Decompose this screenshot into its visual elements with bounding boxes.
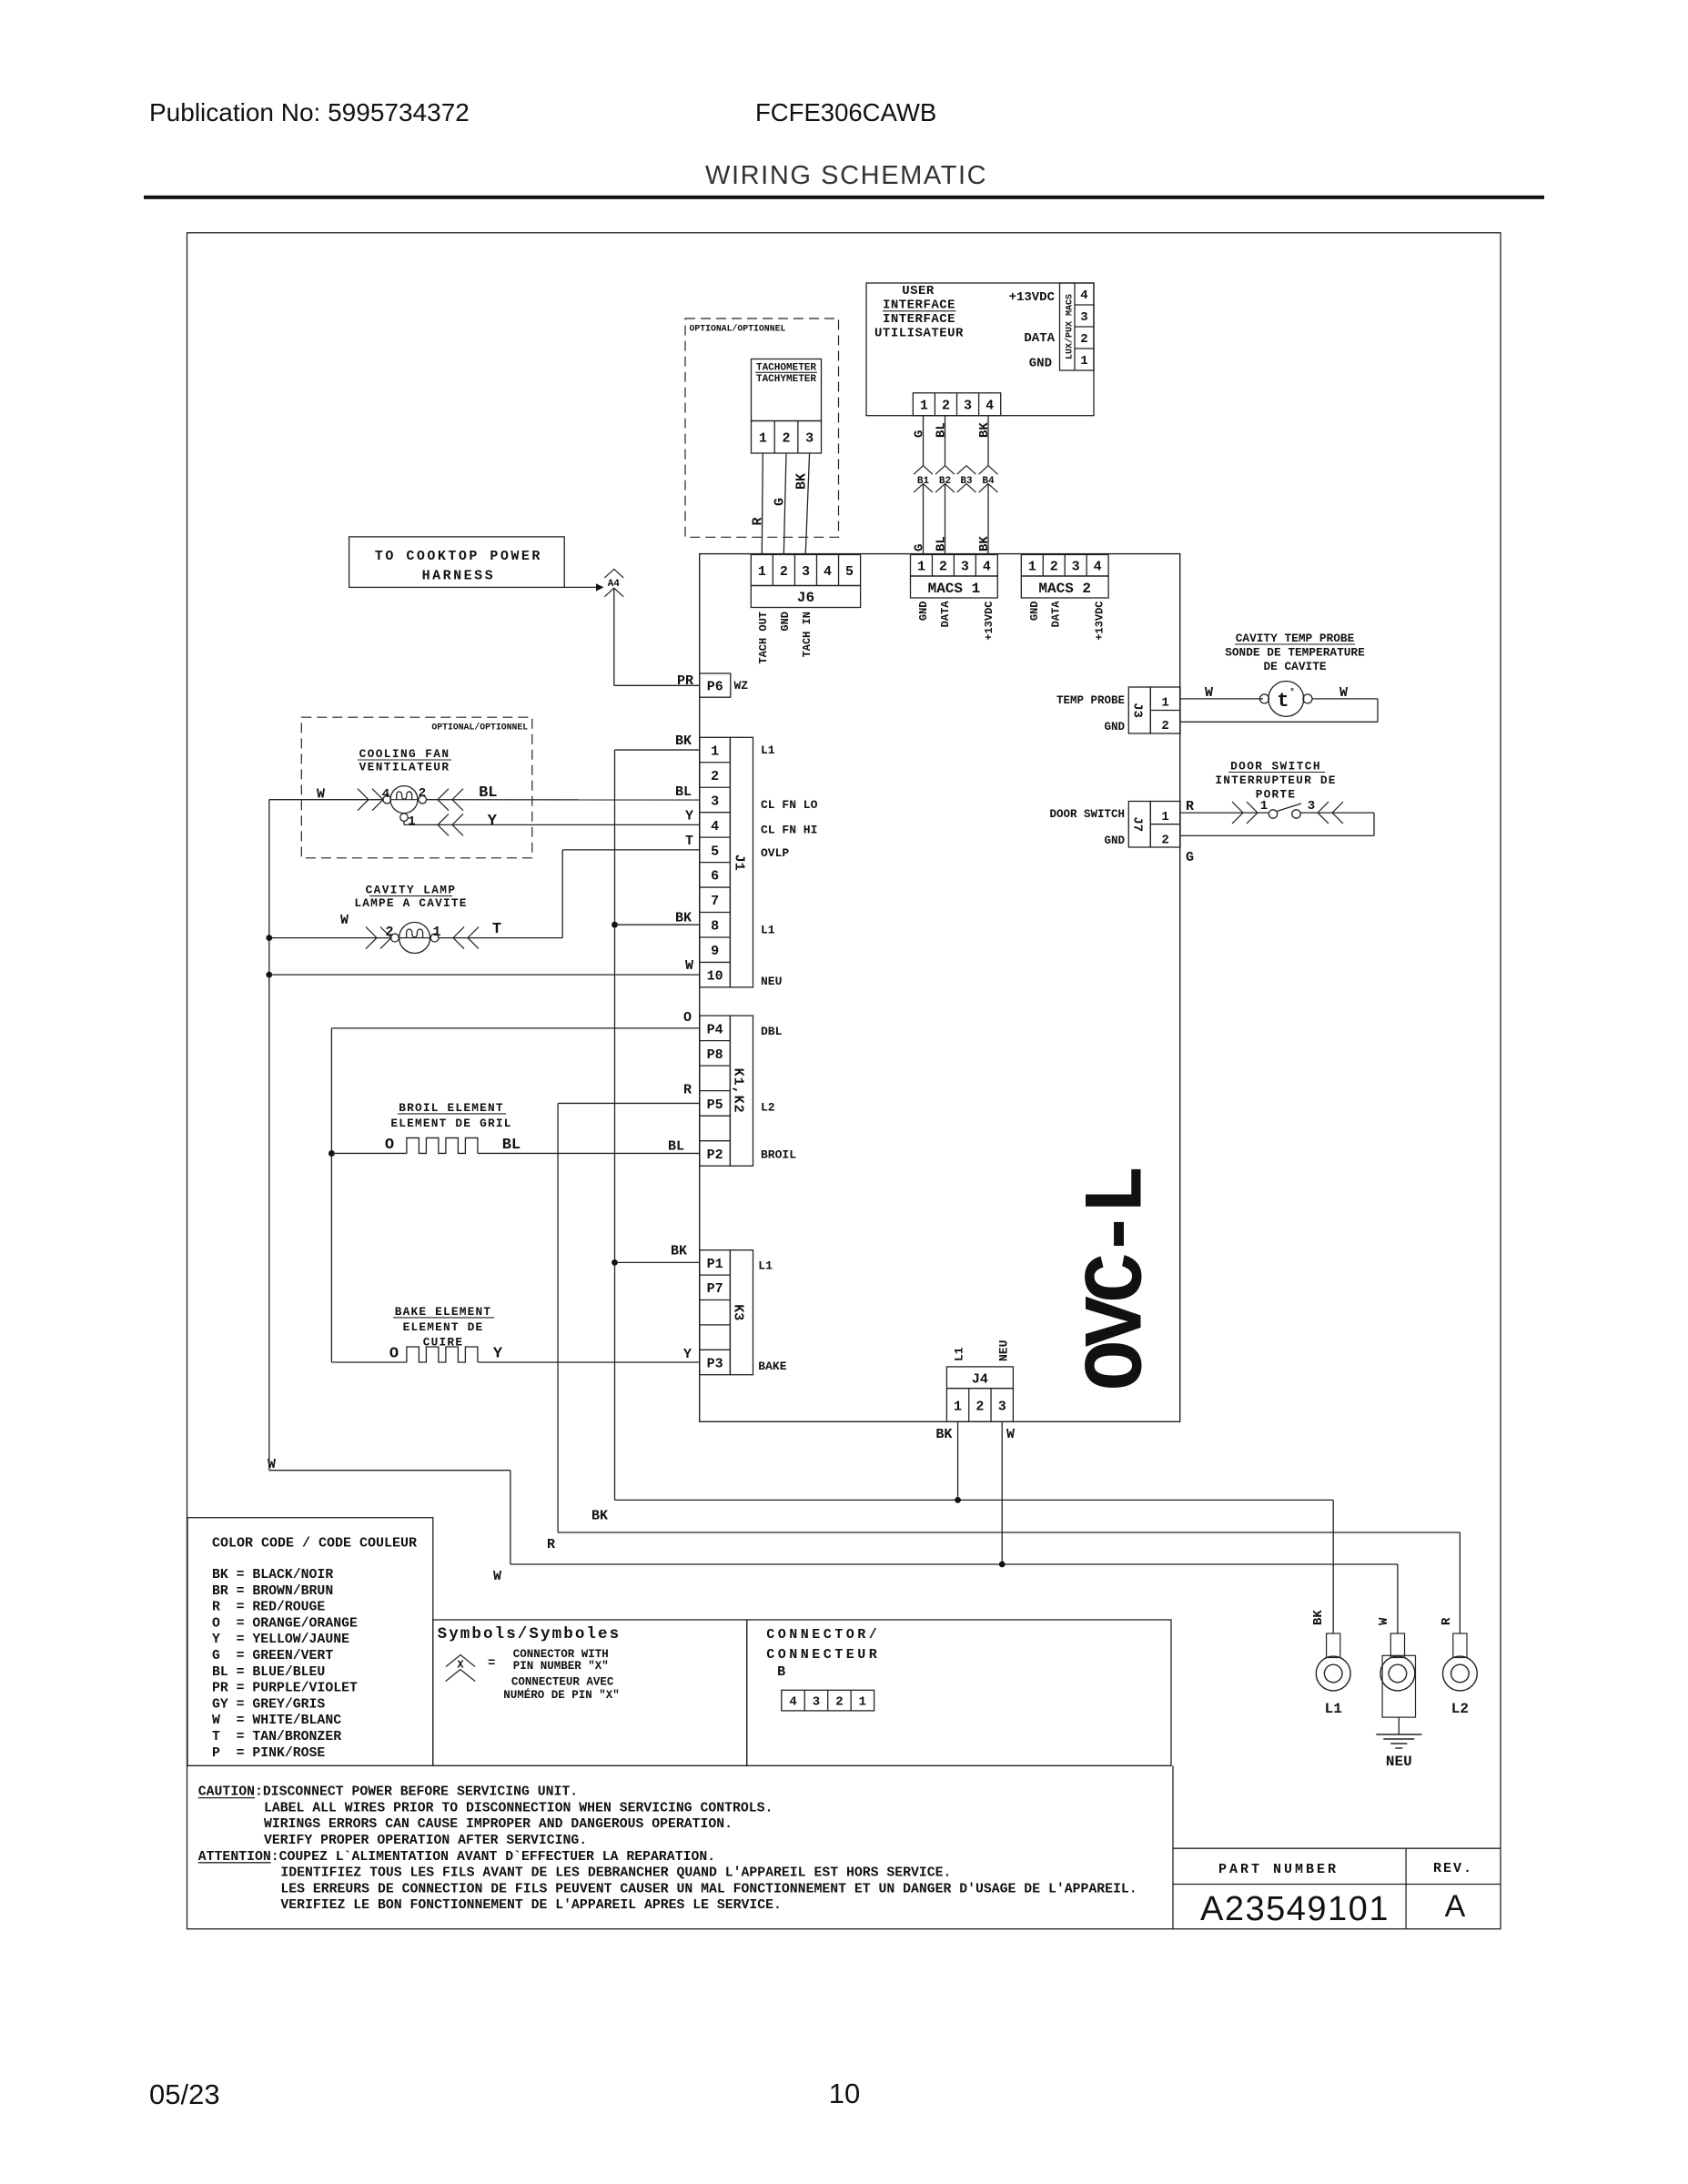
svg-text:W: W <box>1006 1427 1015 1442</box>
svg-text:CAVITY TEMP PROBE: CAVITY TEMP PROBE <box>1236 632 1355 645</box>
svg-text:1: 1 <box>920 399 928 414</box>
svg-text:P3: P3 <box>707 1356 723 1371</box>
svg-text:1: 1 <box>759 431 767 447</box>
svg-text:3: 3 <box>961 560 969 575</box>
svg-text:BK: BK <box>671 1243 687 1259</box>
svg-text:3: 3 <box>1308 799 1315 814</box>
svg-text:MACS 1: MACS 1 <box>928 581 981 597</box>
svg-text:8: 8 <box>711 919 719 935</box>
svg-text:GND: GND <box>1104 721 1125 733</box>
svg-text:2: 2 <box>942 399 950 414</box>
svg-text:1: 1 <box>711 743 719 759</box>
svg-text:BK: BK <box>675 910 692 925</box>
svg-text:W: W <box>340 913 349 928</box>
svg-text:°: ° <box>1289 687 1295 698</box>
svg-text:WZ: WZ <box>734 679 749 693</box>
svg-text:T: T <box>492 921 501 938</box>
svg-text:R: R <box>1440 1617 1454 1625</box>
svg-text:4: 4 <box>983 560 991 575</box>
svg-text:5: 5 <box>711 844 719 859</box>
svg-text:L1: L1 <box>761 743 775 757</box>
svg-text:Y: Y <box>488 813 498 830</box>
svg-text:DOOR SWITCH: DOOR SWITCH <box>1230 760 1321 773</box>
svg-text:OVC-L: OVC-L <box>1071 1168 1167 1390</box>
svg-text:1: 1 <box>859 1695 866 1710</box>
svg-text:5: 5 <box>845 564 854 580</box>
svg-text:L1: L1 <box>953 1347 966 1361</box>
svg-text:J7: J7 <box>1130 816 1145 832</box>
svg-text:1: 1 <box>1080 354 1087 369</box>
svg-text:J4: J4 <box>972 1372 988 1388</box>
svg-text:W: W <box>685 958 693 974</box>
svg-text:R: R <box>751 517 766 525</box>
svg-text:VENTILATEUR: VENTILATEUR <box>359 761 450 774</box>
svg-text:10: 10 <box>707 969 723 985</box>
svg-text:GND: GND <box>1104 834 1125 847</box>
svg-text:2: 2 <box>1080 332 1087 347</box>
svg-text:2: 2 <box>419 786 426 801</box>
svg-text:CONNECTEUR: CONNECTEUR <box>766 1647 880 1663</box>
svg-text:A23549101: A23549101 <box>1200 1890 1390 1928</box>
svg-text:9: 9 <box>711 944 719 959</box>
svg-text:TACHYMETER: TACHYMETER <box>756 374 816 385</box>
svg-text:INTERRUPTEUR DE: INTERRUPTEUR DE <box>1215 773 1336 787</box>
svg-text:1: 1 <box>917 560 925 575</box>
svg-text:INTERFACE: INTERFACE <box>883 312 955 327</box>
svg-text:DOOR SWITCH: DOOR SWITCH <box>1049 808 1125 821</box>
svg-text:K3: K3 <box>731 1304 746 1320</box>
svg-text:GND: GND <box>779 612 792 632</box>
svg-text:VERIFIEZ LE BON FONCTIONNEMENT: VERIFIEZ LE BON FONCTIONNEMENT DE L'APPA… <box>280 1898 782 1913</box>
svg-text:4: 4 <box>824 564 832 580</box>
svg-text:BL: BL <box>479 784 497 802</box>
svg-text:3: 3 <box>813 1695 820 1710</box>
svg-text:PR: PR <box>677 673 693 689</box>
svg-text:NEU: NEU <box>761 975 782 988</box>
svg-text:3: 3 <box>1072 560 1080 575</box>
svg-text:4: 4 <box>1080 288 1087 303</box>
svg-text:BL: BL <box>934 536 948 551</box>
svg-text:3: 3 <box>1080 310 1087 325</box>
svg-text:BAKE ELEMENT: BAKE ELEMENT <box>395 1305 492 1319</box>
svg-text:LABEL ALL WIRES PRIOR TO DISCO: LABEL ALL WIRES PRIOR TO DISCONNECTION W… <box>264 1801 773 1815</box>
svg-text:Symbols/Symboles: Symbols/Symboles <box>438 1625 622 1643</box>
svg-text:Y = YELLOW/JAUNE: Y = YELLOW/JAUNE <box>212 1633 349 1647</box>
svg-text:HARNESS: HARNESS <box>422 569 496 584</box>
svg-text:DBL: DBL <box>761 1025 783 1038</box>
svg-text:2: 2 <box>1161 719 1168 733</box>
svg-text:CL FN HI: CL FN HI <box>761 823 817 836</box>
svg-text:3: 3 <box>802 564 810 580</box>
svg-text:BK: BK <box>675 733 692 749</box>
svg-text:CL FN LO: CL FN LO <box>761 798 818 812</box>
svg-text:2: 2 <box>782 431 790 447</box>
svg-text:G = GREEN/VERT: G = GREEN/VERT <box>212 1649 333 1663</box>
svg-text:ATTENTION:COUPEZ L`ALIMENTATIO: ATTENTION:COUPEZ L`ALIMENTATION AVANT D`… <box>198 1850 715 1865</box>
svg-text:=: = <box>488 1656 495 1671</box>
svg-text:TACH IN: TACH IN <box>801 612 814 657</box>
svg-text:3: 3 <box>964 399 972 414</box>
svg-text:ELEMENT DE: ELEMENT DE <box>403 1320 484 1334</box>
svg-text:BR = BROWN/BRUN: BR = BROWN/BRUN <box>212 1584 333 1599</box>
svg-text:BK: BK <box>935 1427 952 1442</box>
svg-text:L2: L2 <box>1451 1701 1469 1717</box>
svg-text:USER: USER <box>902 284 935 298</box>
svg-text:DE CAVITE: DE CAVITE <box>1263 660 1326 673</box>
svg-text:NUMÉRO DE PIN "X": NUMÉRO DE PIN "X" <box>503 1688 620 1702</box>
svg-text:R: R <box>1186 799 1194 814</box>
svg-text:7: 7 <box>711 894 719 909</box>
svg-text:BROIL: BROIL <box>761 1148 796 1161</box>
svg-text:1: 1 <box>1161 810 1168 824</box>
svg-text:BL: BL <box>675 784 692 800</box>
svg-text:L1: L1 <box>1325 1701 1342 1717</box>
svg-text:6: 6 <box>711 869 719 885</box>
svg-text:BAKE: BAKE <box>758 1360 786 1373</box>
svg-text:GND: GND <box>917 602 930 622</box>
svg-text:GY = GREY/GRIS: GY = GREY/GRIS <box>212 1697 325 1712</box>
svg-text:T = TAN/BRONZER: T = TAN/BRONZER <box>212 1730 341 1744</box>
svg-text:TACHOMETER: TACHOMETER <box>756 363 816 374</box>
svg-text:G: G <box>1186 850 1194 865</box>
svg-text:PORTE: PORTE <box>1256 788 1296 802</box>
svg-text:W: W <box>268 1457 276 1472</box>
svg-text:G: G <box>912 544 926 551</box>
svg-text:O: O <box>389 1346 399 1363</box>
svg-text:3: 3 <box>805 431 814 447</box>
svg-text:GND: GND <box>1028 602 1041 622</box>
svg-text:COLOR CODE / CODE COULEUR: COLOR CODE / CODE COULEUR <box>212 1536 417 1552</box>
svg-text:NEU: NEU <box>996 1340 1010 1361</box>
svg-text:+13VDC: +13VDC <box>1009 290 1056 305</box>
svg-text:OPTIONAL/OPTIONNEL: OPTIONAL/OPTIONNEL <box>431 722 528 732</box>
svg-text:A: A <box>1445 1889 1466 1924</box>
svg-text:B: B <box>777 1664 789 1680</box>
svg-text:BK: BK <box>977 536 992 551</box>
svg-text:O: O <box>385 1137 394 1154</box>
svg-text:W: W <box>317 787 325 803</box>
svg-text:WIRING SCHEMATIC: WIRING SCHEMATIC <box>705 161 987 190</box>
svg-text:O = ORANGE/ORANGE: O = ORANGE/ORANGE <box>212 1616 358 1631</box>
svg-text:1: 1 <box>432 925 440 940</box>
svg-text:2: 2 <box>711 769 719 784</box>
svg-text:BK: BK <box>591 1509 608 1524</box>
svg-text:OPTIONAL/OPTIONNEL: OPTIONAL/OPTIONNEL <box>690 324 786 334</box>
svg-text:O: O <box>683 1010 692 1026</box>
svg-text:LES ERREURS DE CONNECTION DE F: LES ERREURS DE CONNECTION DE FILS PEUVEN… <box>280 1882 1137 1896</box>
svg-text:CONNECTOR/: CONNECTOR/ <box>766 1627 880 1643</box>
svg-text:R = RED/ROUGE: R = RED/ROUGE <box>212 1601 325 1615</box>
svg-text:TO COOKTOP POWER: TO COOKTOP POWER <box>375 549 542 564</box>
svg-text:W = WHITE/BLANC: W = WHITE/BLANC <box>212 1714 341 1728</box>
svg-text:CAUTION:DISCONNECT POWER BEFOR: CAUTION:DISCONNECT POWER BEFORE SERVICIN… <box>198 1785 578 1800</box>
svg-text:TEMP PROBE: TEMP PROBE <box>1056 694 1125 707</box>
svg-text:B3: B3 <box>960 476 973 487</box>
svg-text:PIN NUMBER "X": PIN NUMBER "X" <box>513 1660 609 1673</box>
svg-text:BL = BLUE/BLEU: BL = BLUE/BLEU <box>212 1665 325 1680</box>
svg-text:DATA: DATA <box>1050 601 1063 628</box>
svg-text:L1: L1 <box>761 923 775 936</box>
svg-text:PR = PURPLE/VIOLET: PR = PURPLE/VIOLET <box>212 1682 358 1696</box>
svg-text:CONNECTOR WITH: CONNECTOR WITH <box>513 1648 609 1661</box>
svg-text:P4: P4 <box>707 1022 723 1037</box>
svg-text:W: W <box>1339 685 1348 701</box>
svg-text:t: t <box>1277 690 1289 713</box>
svg-text:2: 2 <box>385 925 393 940</box>
svg-text:P5: P5 <box>707 1097 723 1113</box>
svg-text:W: W <box>493 1569 501 1584</box>
svg-text:05/23: 05/23 <box>149 2078 220 2110</box>
svg-text:J3: J3 <box>1130 703 1145 718</box>
svg-text:+13VDC: +13VDC <box>983 602 996 641</box>
svg-text:GND: GND <box>1029 357 1052 371</box>
svg-text:2: 2 <box>975 1399 984 1414</box>
svg-text:LUX/PUX MACS: LUX/PUX MACS <box>1065 294 1076 359</box>
svg-text:1: 1 <box>1028 560 1036 575</box>
svg-text:Publication No: 5995734372: Publication No: 5995734372 <box>149 98 470 126</box>
svg-text:BK: BK <box>1311 1610 1326 1625</box>
svg-text:2: 2 <box>1161 833 1168 847</box>
svg-text:P = PINK/ROSE: P = PINK/ROSE <box>212 1746 325 1761</box>
svg-text:J6: J6 <box>797 590 814 606</box>
svg-text:R: R <box>683 1082 692 1097</box>
svg-text:4: 4 <box>1094 560 1102 575</box>
svg-text:ELEMENT DE GRIL: ELEMENT DE GRIL <box>390 1117 511 1130</box>
svg-text:COOLING FAN: COOLING FAN <box>359 747 450 761</box>
svg-text:J1: J1 <box>732 854 747 871</box>
svg-text:MACS 2: MACS 2 <box>1038 581 1091 597</box>
svg-text:W: W <box>1377 1617 1391 1625</box>
svg-text:INTERFACE: INTERFACE <box>883 298 955 313</box>
svg-text:BL: BL <box>502 1137 521 1154</box>
svg-text:FCFE306CAWB: FCFE306CAWB <box>755 98 936 126</box>
svg-text:BK: BK <box>977 422 992 438</box>
svg-text:2: 2 <box>780 564 788 580</box>
svg-text:1: 1 <box>1161 696 1168 711</box>
svg-text:LAMPE A CAVITE: LAMPE A CAVITE <box>354 896 467 910</box>
svg-text:REV.: REV. <box>1433 1861 1473 1876</box>
svg-text:BROIL ELEMENT: BROIL ELEMENT <box>399 1101 503 1115</box>
svg-text:BK: BK <box>794 473 810 490</box>
svg-text:T: T <box>685 834 693 849</box>
svg-text:G: G <box>912 430 926 438</box>
svg-text:4: 4 <box>986 399 994 414</box>
svg-text:OVLP: OVLP <box>761 846 789 860</box>
svg-text:UTILISATEUR: UTILISATEUR <box>874 327 964 341</box>
svg-text:DATA: DATA <box>939 601 952 628</box>
svg-text:2: 2 <box>835 1695 843 1710</box>
svg-text:BL: BL <box>934 422 948 438</box>
svg-text:DATA: DATA <box>1024 331 1055 346</box>
svg-text:1: 1 <box>408 814 415 829</box>
svg-text:CONNECTEUR AVEC: CONNECTEUR AVEC <box>511 1676 614 1689</box>
svg-text:TACH OUT: TACH OUT <box>757 612 770 664</box>
svg-text:VERIFY PROPER OPERATION AFTER: VERIFY PROPER OPERATION AFTER SERVICING. <box>264 1834 587 1848</box>
svg-text:L1: L1 <box>758 1259 773 1272</box>
svg-text:K1,K2: K1,K2 <box>731 1068 746 1114</box>
svg-text:P7: P7 <box>707 1281 723 1297</box>
svg-text:4: 4 <box>382 787 389 802</box>
svg-text:1: 1 <box>758 564 766 580</box>
svg-text:Y: Y <box>493 1346 503 1363</box>
svg-text:WIRINGS ERRORS CAN CAUSE IMPRO: WIRINGS ERRORS CAN CAUSE IMPROPER AND DA… <box>264 1817 733 1832</box>
svg-text:CAVITY LAMP: CAVITY LAMP <box>366 884 457 897</box>
svg-text:2: 2 <box>939 560 947 575</box>
svg-text:R: R <box>547 1537 555 1552</box>
svg-text:Y: Y <box>685 808 693 824</box>
svg-text:IDENTIFIEZ TOUS LES FILS AVANT: IDENTIFIEZ TOUS LES FILS AVANT DE LES DE… <box>280 1866 951 1881</box>
svg-text:10: 10 <box>829 2078 860 2109</box>
svg-text:P6: P6 <box>707 680 723 695</box>
svg-text:P8: P8 <box>707 1047 723 1063</box>
svg-text:P1: P1 <box>707 1257 723 1272</box>
svg-text:+13VDC: +13VDC <box>1094 602 1107 641</box>
svg-text:3: 3 <box>998 1399 1006 1414</box>
svg-text:P2: P2 <box>707 1148 723 1163</box>
svg-text:BL: BL <box>668 1138 684 1154</box>
svg-text:4: 4 <box>789 1695 796 1710</box>
svg-text:SONDE DE TEMPERATURE: SONDE DE TEMPERATURE <box>1225 646 1365 660</box>
svg-text:2: 2 <box>1050 560 1058 575</box>
svg-text:L2: L2 <box>761 1100 775 1114</box>
svg-text:4: 4 <box>711 819 719 834</box>
svg-text:BK = BLACK/NOIR: BK = BLACK/NOIR <box>212 1568 333 1582</box>
svg-text:1: 1 <box>954 1399 962 1414</box>
svg-text:Y: Y <box>683 1347 692 1362</box>
svg-text:W: W <box>1205 685 1213 701</box>
svg-text:G: G <box>773 498 788 506</box>
svg-text:NEU: NEU <box>1386 1754 1412 1770</box>
svg-text:PART NUMBER: PART NUMBER <box>1218 1862 1339 1877</box>
svg-text:3: 3 <box>711 794 719 809</box>
